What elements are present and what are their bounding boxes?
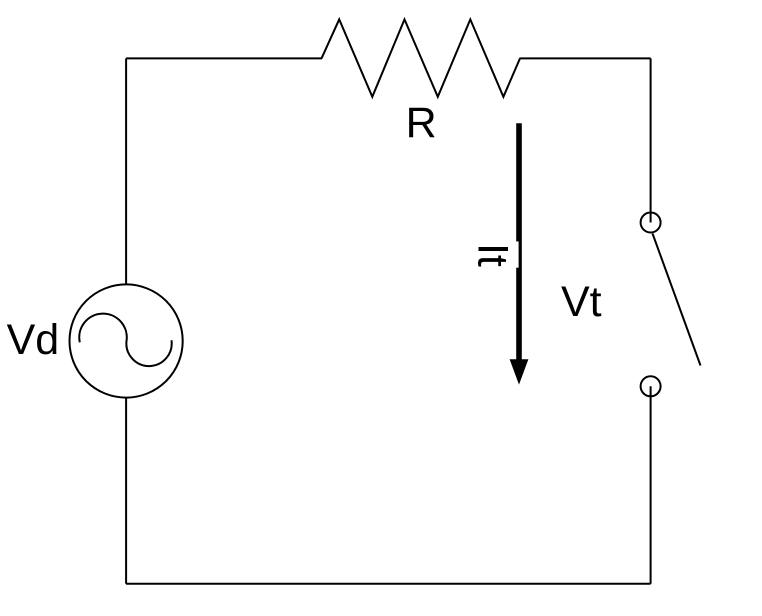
svg-text:Vd: Vd [7, 316, 60, 364]
AC source sine wave [79, 314, 171, 366]
wire top-left segment [126, 57, 322, 59]
wire left lower [125, 398, 127, 584]
current arrow It shaft [516, 123, 522, 361]
wire left upper [125, 58, 127, 284]
current arrow It head [510, 359, 529, 384]
label It white backing [466, 241, 519, 267]
wire bottom [126, 583, 651, 585]
svg-text:Vt: Vt [561, 278, 602, 326]
wire top-right segment [520, 57, 651, 59]
wire right upper [650, 58, 652, 222]
AC source Vd circle [70, 284, 183, 397]
svg-text:It: It [468, 243, 516, 267]
resistor R [322, 19, 521, 96]
svg-text:R: R [406, 99, 437, 147]
switch top terminal [641, 213, 661, 233]
wire right lower [650, 386, 652, 584]
switch bottom terminal [641, 376, 661, 396]
switch blade [653, 234, 701, 366]
